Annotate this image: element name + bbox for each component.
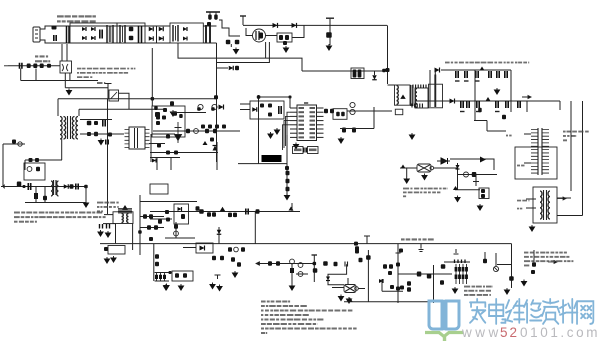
resistor R75 (212, 256, 216, 260)
capacitor C17 (467, 101, 469, 108)
resistor R91 (417, 272, 422, 277)
capacitor C43 (154, 106, 158, 110)
wire t2 out2 (80, 133, 124, 135)
wire col368 (367, 250, 369, 302)
resistor R55 (196, 206, 200, 211)
resistor R51 (158, 219, 162, 224)
ground (99, 139, 104, 145)
note text block lower-left (14, 212, 20, 214)
ground (233, 271, 238, 277)
resistor R21 (286, 187, 290, 192)
watermark char 修 (524, 300, 541, 323)
relay E1 (60, 61, 72, 73)
T1 aux box (395, 109, 403, 115)
wire cmp col (381, 279, 383, 291)
T2 secondary b (76, 117, 78, 140)
wire fb row2 (170, 112, 206, 114)
diode D22 (152, 159, 156, 163)
resistor R34 (186, 129, 190, 134)
wire cs down (373, 107, 375, 129)
wire B loop (217, 42, 270, 63)
diode D18 (198, 104, 203, 109)
note text dc small (97, 202, 103, 204)
wire down x560 (559, 101, 561, 110)
wire relay dn2 (69, 73, 71, 81)
feedback net box (250, 101, 284, 119)
capacitor C10 (456, 71, 458, 78)
capacitor C11 (465, 71, 467, 78)
resistor R60 (174, 224, 178, 229)
wire fb row (238, 163, 287, 165)
wire sec out (434, 70, 436, 75)
U1 left pin 2 (290, 111, 297, 113)
wire stb return (21, 80, 98, 82)
PFC block module U10 (170, 23, 203, 43)
wire gate out (347, 110, 392, 112)
wire d29 out (119, 93, 130, 109)
wire t4 left2 (103, 223, 116, 225)
junction marker4 (220, 207, 226, 211)
cap C46 (345, 262, 348, 267)
wire aux column (329, 19, 331, 45)
ground (67, 89, 72, 95)
wire col433 (433, 265, 435, 303)
wire pwm row (487, 130, 506, 132)
U11 pins (125, 130, 150, 148)
resistor R44 (166, 151, 170, 155)
resistor R89 (407, 281, 411, 286)
wire to cap (292, 25, 304, 37)
transistor Q2 (326, 32, 332, 38)
standby IC U11 (129, 127, 145, 149)
wire pri top (388, 84, 395, 86)
resistor R29 (35, 158, 39, 162)
watermark book icon pages (429, 300, 459, 330)
wire u10 out (358, 288, 365, 290)
resistor R9 (358, 70, 362, 78)
rectifier D13 (435, 68, 440, 73)
option box 1 (293, 147, 304, 154)
capacitor C2a (67, 26, 70, 43)
capacitor C29 (35, 193, 37, 199)
ground (105, 257, 110, 263)
cn1 lower box (515, 147, 557, 179)
wire col176 (175, 222, 177, 238)
bulk capacitor C3 (206, 25, 210, 43)
note right bottom (524, 252, 528, 254)
wire right col571 (570, 131, 572, 191)
resistor R4 (207, 22, 211, 26)
TL431 U5 (175, 122, 182, 143)
wire col487 (486, 121, 488, 132)
wire drain bus (387, 25, 389, 84)
ground (522, 280, 527, 286)
diode D11 (292, 23, 297, 28)
zener ZD7 (234, 247, 239, 252)
zener ZD15 (154, 225, 158, 230)
resistor R68 (481, 194, 485, 198)
wire r5 stub (230, 44, 232, 47)
svg-text:0101.com: 0101.com (520, 325, 600, 340)
capacitor C18 (477, 101, 479, 108)
resistor R105 (108, 133, 112, 137)
wire fb rail (153, 130, 240, 132)
capacitor C21 (518, 101, 520, 108)
T5 w2 (548, 191, 550, 219)
T1 top pins (413, 85, 426, 89)
wire col217 (216, 142, 218, 170)
resistor pair box (351, 68, 364, 79)
ground (495, 88, 500, 94)
resistor R14 (324, 109, 328, 114)
wire HV rail (243, 24, 387, 26)
wire cs line (340, 128, 374, 130)
note text output (445, 62, 450, 64)
diode D10 (273, 23, 278, 28)
wire t4 down (115, 224, 117, 244)
wire left edge (2, 144, 4, 187)
capacitor C47 (215, 275, 221, 279)
resistor R28 (29, 158, 33, 162)
resistor R7 (285, 35, 289, 40)
resistor R88d (400, 286, 404, 290)
T4 marker (122, 205, 128, 210)
T4 box (113, 212, 133, 224)
T1 primary winding (397, 86, 399, 105)
wire rail join a (203, 25, 216, 27)
capacitor C42 (106, 140, 108, 145)
fuse F1 (52, 26, 57, 30)
capacitor CY1 (129, 27, 134, 32)
capacitor C26 (103, 120, 105, 127)
junction marker u8b (453, 186, 458, 190)
svg-text:52: 52 (500, 325, 519, 340)
t5 arrow (557, 197, 566, 200)
diode D21 (213, 146, 218, 151)
note list bottom (261, 301, 266, 303)
capacitor C22 (478, 108, 482, 113)
wire x152 (151, 48, 153, 106)
ground (284, 46, 289, 52)
resistor R24 (94, 121, 98, 125)
PWM label (506, 135, 508, 137)
diode block D29 (109, 90, 119, 101)
U1 right pin 13 (317, 120, 324, 122)
wire bot rail263 (258, 263, 316, 265)
zener ZD9 (464, 172, 469, 177)
transistor Q1 body (259, 33, 263, 39)
option box 2 (308, 147, 319, 154)
resistor R33 (156, 121, 160, 125)
diode D8b (183, 27, 187, 31)
wire y201 rail (140, 201, 197, 203)
ground (455, 196, 460, 202)
U1 left pin nest wires (283, 112, 291, 150)
wire A lower loop (178, 43, 302, 71)
resistor R111 (235, 66, 239, 71)
junction marker5 (289, 207, 294, 211)
wire t2 top left lead (57, 99, 59, 116)
regulator box U3 (24, 163, 45, 180)
capacitor C4 (208, 15, 212, 20)
wire col485 (484, 252, 486, 259)
resistor R5 (226, 40, 231, 45)
RN1 blobs row1 (455, 267, 458, 272)
wire mid-to-bus riser (254, 212, 256, 244)
U1 left pin 7 (290, 132, 297, 134)
diode D15 (252, 107, 257, 112)
capacitor C20 (506, 101, 508, 108)
capacitor C13 (489, 71, 491, 78)
capacitor C30b (107, 224, 110, 229)
ground (294, 143, 299, 149)
wire t5 left1 (526, 198, 536, 200)
ground (478, 204, 483, 210)
T2 primary b (64, 117, 66, 140)
resistor R88c (390, 285, 394, 289)
wire row174 (458, 174, 498, 176)
T5 w1 (540, 191, 542, 219)
cap C34 (396, 248, 401, 253)
wire stb feed (58, 98, 216, 100)
opto U9 (172, 271, 193, 281)
resistor R46 (17, 182, 22, 187)
t5 label2 (517, 208, 519, 210)
choke L2 (120, 25, 125, 43)
resistor R70 (399, 249, 403, 253)
resistor R97 (531, 270, 535, 274)
watermark char 网 (577, 301, 593, 324)
U6 led (178, 207, 182, 211)
wire t4 left1 (104, 214, 113, 216)
D29 symbol (111, 92, 118, 99)
U1 left pin 3 (290, 115, 297, 117)
diode D23 (64, 184, 69, 189)
resistor R35 (205, 129, 209, 134)
transformer T1 primary box (395, 85, 413, 106)
opto U4 box (152, 106, 185, 137)
wire stb row2 (65, 87, 108, 89)
cap gnd ticks (455, 80, 480, 82)
wire u8 out (434, 167, 458, 169)
U1 right pin 9 (317, 136, 324, 138)
terminal stb (4, 65, 8, 67)
wire cmp row (382, 290, 403, 292)
wire cap top bar (240, 15, 246, 17)
ground (453, 287, 458, 293)
U1 left pin 6 (290, 128, 297, 130)
T3 w2 (57, 181, 59, 196)
black label block (262, 155, 282, 162)
PFC choke L3 (173, 25, 178, 42)
zener ZD4 (18, 142, 22, 146)
watermark char 资 (542, 299, 559, 324)
zener ZD11a (298, 263, 303, 268)
resistor R47 (70, 184, 74, 189)
rc box right (333, 109, 347, 120)
diode D2 (82, 36, 86, 40)
resistor R16 (341, 112, 345, 117)
EMI filter box 1 (70, 23, 117, 43)
wire bot rail302 (344, 301, 460, 303)
resistor R20 (286, 179, 290, 184)
capacitor C25 (304, 148, 306, 153)
resistor ladder RN1 (456, 264, 467, 284)
wire snubber to rail (219, 20, 240, 36)
wire L line (40, 26, 150, 29)
capacitor C30 (100, 224, 103, 229)
optocoupler U6 (174, 204, 189, 224)
wire col476 (475, 175, 477, 187)
resistor R96 (532, 262, 536, 267)
ground (106, 231, 111, 237)
resistor R13 (268, 113, 272, 117)
cap C35b (419, 244, 424, 252)
wire t2 out (80, 119, 112, 121)
wire cap gnd bus (474, 70, 476, 120)
wire u10 top (347, 278, 349, 285)
ground (234, 48, 239, 54)
wire t2 down (61, 139, 63, 160)
U1 left pin 8 (290, 136, 297, 138)
ground (275, 128, 280, 134)
ground (404, 177, 409, 183)
resistor R95b (509, 276, 514, 281)
wire rail join b (203, 42, 216, 44)
r network box (479, 188, 489, 199)
wire col534 (533, 250, 535, 262)
resistor R39 (201, 125, 205, 129)
wire vcc top (259, 96, 291, 98)
wire mid rail (150, 211, 300, 213)
wire cap plate (326, 17, 334, 19)
cap C33 (364, 236, 370, 244)
resistor R94b (483, 259, 487, 264)
resistor R102 (40, 64, 44, 69)
diode D24 (143, 214, 147, 219)
wire u8 gnd col (406, 168, 408, 177)
diode D3 (91, 27, 95, 31)
wire row152 (150, 152, 218, 154)
zener ZD5 (194, 129, 199, 134)
capacitor C19 (496, 101, 498, 108)
ground (347, 297, 352, 303)
capacitor C32 (473, 182, 479, 187)
ground (164, 284, 169, 290)
resistor R108 (170, 101, 174, 106)
wire mosfet drain (246, 28, 253, 36)
wire bl col (153, 244, 155, 281)
capacitor C12 (476, 71, 478, 78)
resistor R18 (352, 128, 356, 133)
wire T-top (242, 16, 244, 25)
resistor R84 (359, 258, 363, 263)
note small bottom-left (464, 286, 470, 288)
resistor R30 (36, 167, 40, 172)
junction marker2 (486, 97, 491, 101)
bridge diode D5 (149, 27, 154, 32)
junction marker u8 (401, 165, 406, 169)
resistor R81 (313, 268, 318, 273)
capacitor C2b (139, 26, 142, 44)
junction bl (169, 271, 172, 274)
resistor R52b (149, 237, 153, 241)
watermark char 维 (506, 299, 524, 323)
label box (517, 165, 520, 167)
zener ZD10 (290, 259, 295, 264)
capacitor C22b (502, 115, 506, 120)
U9 tr (183, 273, 187, 278)
transformer T5 core (544, 190, 547, 220)
wire col171 (170, 158, 172, 171)
junction8 (313, 262, 317, 266)
resistor R76 (220, 256, 224, 260)
connector CN1 (531, 128, 549, 175)
resistor R86 (355, 250, 359, 254)
resistor R56 (199, 209, 204, 214)
capacitor C41 360V (105, 84, 112, 89)
T1 bottom pins (412, 104, 422, 108)
U1 pin labels (299, 107, 305, 109)
wire fb in b (240, 109, 250, 111)
wire right bus1 (570, 101, 572, 191)
wire t4row1 (140, 216, 164, 218)
wire u1 gnd col (286, 135, 288, 196)
resistor R90 (407, 287, 411, 292)
wire row238 (165, 237, 195, 239)
wire u11 row2 (149, 143, 165, 145)
capacitor C40 (20, 63, 22, 69)
resistor R6 (279, 35, 283, 40)
ground (210, 283, 215, 289)
wire mid rail2 (150, 218, 172, 220)
arrow in (256, 262, 262, 265)
capacitor C24 (336, 112, 340, 117)
capacitor C31 (246, 209, 248, 215)
resistor R103 (47, 64, 51, 68)
resistor R42 (222, 125, 226, 129)
wire down x527 (526, 101, 528, 112)
zener ZD3 (94, 132, 98, 137)
360V label (97, 82, 103, 84)
U7 sym (200, 246, 205, 251)
note text tl431 (403, 188, 409, 190)
wire vcc col (258, 95, 260, 164)
transformer T1 secondary box (415, 84, 443, 108)
junction9 (396, 263, 400, 267)
EMI filter box 2 (117, 23, 145, 43)
note text block 1 (57, 15, 64, 17)
resistor R104 (87, 132, 91, 136)
watermark char 料 (560, 299, 577, 323)
resistor R54 (166, 218, 170, 222)
junction stb (151, 97, 155, 101)
U6 tr (181, 214, 185, 219)
resistor R77 (231, 257, 235, 262)
junction (257, 95, 261, 99)
T3 w1 (51, 181, 53, 196)
wire br row262 (444, 261, 470, 263)
diode D8c (183, 37, 187, 41)
wire mosfet right (266, 35, 278, 37)
resistor R59 (256, 209, 260, 214)
resistor R12b (260, 104, 264, 108)
wire cn1 left bus (524, 133, 531, 135)
resistor R36 (213, 129, 217, 134)
capacitor CY2 (129, 36, 134, 41)
watermark char 电 (489, 299, 505, 324)
resistor R31 (12, 140, 16, 144)
